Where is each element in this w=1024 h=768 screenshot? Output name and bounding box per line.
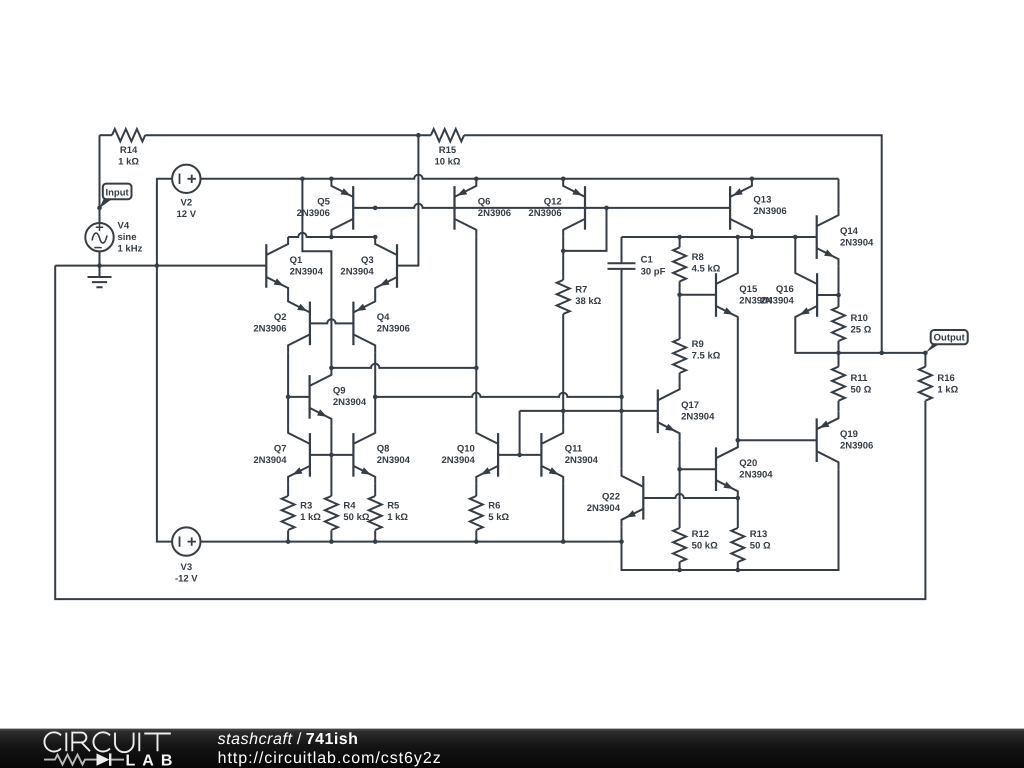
node Q13 emitter: [750, 177, 755, 182]
svg-text:2N3904: 2N3904: [442, 455, 476, 466]
wire bias jog from rail to Q9 collector: [302, 179, 331, 368]
wire Q11 collector up: [562, 411, 564, 426]
svg-text:Q19: Q19: [840, 429, 858, 440]
node C1 bottom: [619, 409, 624, 414]
svg-text:2N3904: 2N3904: [377, 455, 411, 466]
svg-text:25 Ω: 25 Ω: [851, 325, 872, 336]
transistor Q7: [253, 426, 310, 484]
resistor R10: [832, 307, 872, 341]
transistor Q14: [817, 208, 874, 266]
svg-text:4.5 kΩ: 4.5 kΩ: [692, 263, 721, 274]
wire Q14 emitter to R10: [818, 266, 839, 307]
wire R12 bottom: [679, 562, 681, 570]
wire R11 bottom to Q19 emitter: [838, 401, 840, 412]
svg-text:Q13: Q13: [753, 195, 771, 206]
wire +12V rail: [201, 175, 839, 179]
svg-text:Q8: Q8: [377, 444, 390, 455]
node output right riser: [879, 351, 884, 356]
wire R4 top: [330, 455, 332, 496]
transistor Q10: [442, 426, 499, 484]
node Q2 collector/Q9 base: [286, 395, 291, 400]
svg-text:V2: V2: [180, 197, 192, 208]
transistor Q8: [353, 426, 410, 484]
svg-text:sine: sine: [118, 232, 137, 243]
footer bar: [0, 729, 1024, 768]
svg-text:2N3906: 2N3906: [840, 441, 873, 452]
wire R14/R15 tap to Q3 base: [397, 135, 419, 265]
wire second stage top node: [622, 236, 818, 238]
svg-text:LAB: LAB: [126, 752, 180, 768]
svg-text:Q10: Q10: [457, 444, 475, 455]
transistor Q1: [266, 237, 323, 295]
logo resistor-diode glyph and LAB: [44, 755, 97, 765]
node output terminal: [923, 351, 928, 356]
node Q5 collector: [329, 235, 334, 240]
svg-text:-12 V: -12 V: [175, 573, 198, 584]
svg-text:R10: R10: [851, 313, 868, 324]
svg-text:Q9: Q9: [333, 386, 346, 397]
transistor Q5: [297, 179, 354, 237]
svg-text:Q5: Q5: [317, 197, 330, 208]
transistor Q22: [587, 469, 644, 527]
node R12 bottom: [677, 568, 682, 573]
svg-text:1 kΩ: 1 kΩ: [937, 385, 958, 396]
wire R11 top: [838, 353, 840, 367]
svg-text:C1: C1: [641, 255, 654, 266]
svg-text:R14: R14: [120, 145, 138, 156]
svg-text:Q7: Q7: [274, 444, 287, 455]
wire Q9 emitter down: [330, 426, 332, 455]
svg-text:2N3906: 2N3906: [528, 208, 561, 219]
node R14/R15 junction: [416, 133, 421, 138]
svg-text:2N3904: 2N3904: [681, 412, 715, 423]
node Q15 collector: [736, 235, 741, 240]
resistor R14: [112, 129, 145, 168]
svg-text:2N3906: 2N3906: [253, 324, 286, 335]
transistor Q9: [310, 368, 367, 426]
svg-text:R12: R12: [692, 529, 709, 540]
transistor Q19: [817, 411, 874, 469]
svg-text:R15: R15: [439, 145, 457, 156]
wire Q10 emitter to R6: [475, 484, 477, 496]
wire V2 left to V3 left: [157, 179, 172, 542]
wire R13 top: [737, 498, 739, 528]
wire ground net to Q1 base: [55, 265, 266, 267]
node input terminal: [97, 206, 102, 211]
svg-text:stashcraft / 741ish: stashcraft / 741ish: [218, 731, 359, 748]
wire Q9 collector to Q6 collector: [331, 364, 476, 368]
svg-text:R4: R4: [343, 501, 356, 512]
wire R9 bottom to Q17 collector: [679, 373, 681, 382]
node Q3 collector: [373, 235, 378, 240]
svg-text:50 Ω: 50 Ω: [851, 385, 872, 396]
wire V4 bottom: [99, 251, 101, 265]
output flag: [926, 330, 968, 353]
svg-text:Q15: Q15: [739, 284, 758, 295]
svg-text:Q22: Q22: [602, 492, 620, 503]
svg-text:R5: R5: [387, 501, 400, 512]
svg-text:2N3904: 2N3904: [761, 295, 795, 306]
resistor R7: [557, 280, 602, 314]
svg-text:2N3904: 2N3904: [739, 470, 773, 481]
wire Q1/Q3/Q5 collector node: [288, 233, 375, 237]
wire input vertical: [99, 135, 101, 223]
wire R10 bottom: [838, 341, 840, 353]
svg-text:2N3906: 2N3906: [297, 208, 330, 219]
wire mirror tie Q10/Q11 and Q17 base: [520, 411, 658, 455]
transistor Q12: [528, 179, 585, 237]
resistor R5: [369, 496, 409, 530]
voltage source V2: [172, 165, 200, 220]
svg-text:2N3904: 2N3904: [840, 237, 874, 248]
wire C1 bottom to Q22 collector: [621, 269, 623, 469]
wire top-left from R14 corner: [100, 134, 113, 136]
svg-text:Input: Input: [105, 187, 129, 198]
svg-text:2N3904: 2N3904: [290, 266, 324, 277]
node R4 bottom: [329, 539, 334, 544]
node R5 bottom: [373, 539, 378, 544]
svg-text:Q3: Q3: [361, 255, 374, 266]
wire Q12 base-collector tie: [563, 208, 606, 251]
svg-text:1 kΩ: 1 kΩ: [300, 512, 321, 523]
svg-text:30 pF: 30 pF: [641, 266, 666, 277]
node first stage out: [619, 395, 624, 400]
node Q11 emitter rail: [561, 539, 566, 544]
transistor Q16: [761, 266, 818, 324]
svg-text:Q6: Q6: [478, 197, 491, 208]
svg-text:10 kΩ: 10 kΩ: [434, 157, 460, 168]
wire Q6 collector to Q10 collector: [475, 237, 477, 426]
svg-text:2N3906: 2N3906: [478, 208, 511, 219]
node Q17 emitter/Q20 base: [677, 467, 682, 472]
svg-text:R11: R11: [851, 373, 869, 384]
input flag: [99, 184, 131, 209]
svg-text:2N3904: 2N3904: [333, 397, 367, 408]
node Q16 collector: [793, 235, 798, 240]
transistor Q15: [716, 266, 773, 324]
node Q22 emitter rail: [619, 539, 624, 544]
resistor R3: [282, 496, 322, 530]
node Q12 base: [604, 206, 609, 211]
wire R7 bottom: [562, 314, 564, 411]
wire Q16 collector up: [794, 237, 796, 266]
wire Q2-Q4 base: [310, 319, 354, 323]
resistor R11: [832, 367, 872, 401]
node Q20 emitter/R13: [736, 496, 741, 501]
wire Q10/Q11 base bus: [498, 454, 541, 456]
node Q6/Q10 collector tap: [474, 366, 479, 371]
wire R4 bottom: [330, 530, 332, 541]
resistor R8: [673, 247, 721, 281]
wire R15 to right side down to output: [464, 135, 882, 353]
wire R16 top: [924, 353, 926, 367]
wire Q20 collector node to Q19 base: [738, 439, 818, 441]
wire Q16 emitter to output: [795, 324, 925, 353]
svg-text:2N3906: 2N3906: [377, 324, 410, 335]
ground: [88, 266, 112, 288]
wire Q2 collector to Q7 collector: [287, 352, 289, 426]
wire Q7/Q8 base bus: [310, 454, 354, 456]
wire Q4 collector to Q8 collector: [374, 352, 376, 426]
node Q14 emitter/Q16 base: [836, 293, 841, 298]
svg-text:1 kΩ: 1 kΩ: [387, 512, 408, 523]
node Q5 emitter: [329, 177, 334, 182]
node rail bias tap: [300, 177, 305, 182]
resistor R16: [919, 367, 959, 401]
svg-text:Q11: Q11: [565, 444, 583, 455]
wire C1 top: [621, 237, 623, 263]
wire R3 bottom: [287, 530, 289, 541]
svg-text:2N3904: 2N3904: [253, 455, 287, 466]
svg-text:Q1: Q1: [290, 255, 303, 266]
svg-text:1 kHz: 1 kHz: [118, 244, 143, 255]
svg-text:Q12: Q12: [544, 197, 562, 208]
node R10/R11 output: [836, 351, 841, 356]
transistor Q13: [730, 179, 787, 237]
node Q12 emitter: [561, 177, 566, 182]
svg-text:2N3904: 2N3904: [565, 455, 599, 466]
wire Q22 emitter down: [621, 527, 623, 542]
svg-text:2N3906: 2N3906: [753, 206, 786, 217]
svg-text:Q17: Q17: [681, 400, 699, 411]
resistor R13: [731, 528, 771, 562]
wire Q9 base: [288, 396, 309, 398]
wire R8 top: [679, 237, 681, 247]
wire Q15 collector up: [737, 237, 739, 266]
voltage source V3: [172, 527, 200, 584]
svg-text:50 Ω: 50 Ω: [750, 541, 771, 552]
resistor R9: [673, 339, 721, 373]
wire R8 bottom / Q15 base: [680, 281, 716, 339]
svg-text:50 kΩ: 50 kΩ: [343, 512, 369, 523]
transistor Q4: [353, 294, 410, 352]
svg-text:R16: R16: [937, 373, 954, 384]
wire R5 bottom: [374, 530, 376, 541]
svg-text:Q4: Q4: [377, 312, 390, 323]
resistor R12: [673, 528, 718, 562]
svg-text:7.5 kΩ: 7.5 kΩ: [692, 351, 721, 362]
svg-text:R6: R6: [488, 501, 500, 512]
transistor Q20: [716, 440, 773, 498]
wire R14 to R15: [145, 134, 431, 136]
capacitor C1: [608, 255, 666, 278]
resistor R15: [431, 129, 464, 168]
svg-text:V3: V3: [180, 562, 192, 573]
node Q4/Q8 collector tap: [373, 395, 378, 400]
wire Q11 emitter down: [562, 484, 564, 542]
resistor R4: [325, 496, 370, 530]
svg-text:Q2: Q2: [274, 312, 287, 323]
node Q3 collector/base bus: [373, 206, 378, 211]
transistor Q17: [658, 382, 715, 440]
wire -12V rail: [201, 469, 839, 570]
svg-text:Q16: Q16: [776, 284, 794, 295]
transistor Q6: [455, 179, 512, 237]
node V2/V3 ground tie: [155, 263, 160, 268]
node R6 bottom: [474, 539, 479, 544]
node Q6 emitter: [474, 177, 479, 182]
svg-text:2N3904: 2N3904: [587, 503, 621, 514]
node R3 bottom: [286, 539, 291, 544]
svg-text:38 kΩ: 38 kΩ: [575, 296, 601, 307]
svg-text:5 kΩ: 5 kΩ: [488, 512, 509, 523]
resistor R6: [470, 496, 510, 530]
wire rail corner to Q14 collector: [838, 179, 840, 208]
node R7 bottom/Q11 collector: [561, 409, 566, 414]
svg-text:Q14: Q14: [840, 226, 859, 237]
wire first stage output: [375, 393, 621, 397]
wire Q7 emitter to R3: [287, 484, 289, 496]
node Q20 collector/Q19 base: [736, 438, 741, 443]
svg-text:R9: R9: [692, 339, 704, 350]
svg-text:1 kΩ: 1 kΩ: [118, 157, 139, 168]
transistor Q3: [340, 237, 397, 295]
node R8 top: [677, 235, 682, 240]
wire Q15 emitter to Q20 collector: [737, 324, 739, 440]
node R13 bottom: [736, 568, 741, 573]
CircuitLab logo wordmark CIRCUIT: [44, 732, 170, 752]
svg-text:R3: R3: [300, 501, 312, 512]
transistor Q11: [541, 426, 598, 484]
svg-text:Output: Output: [934, 333, 966, 344]
wire Q12 collector down: [562, 237, 564, 280]
wire Q22 base to Q20 emitter: [643, 494, 738, 498]
wire Q8 emitter to R5: [374, 484, 376, 496]
node R8/R9/Q15 base: [677, 293, 682, 298]
wire Q17 emitter to Q20 base: [680, 468, 716, 470]
voltage source V4 (sine): [85, 221, 142, 255]
wire pnp base bus Q5-Q13: [353, 204, 730, 208]
node V4 ground: [97, 263, 102, 268]
svg-text:http://circuitlab.com/cst6y2z: http://circuitlab.com/cst6y2z: [218, 750, 442, 767]
svg-text:R8: R8: [692, 252, 704, 263]
svg-text:12 V: 12 V: [177, 209, 197, 220]
svg-text:R13: R13: [750, 529, 767, 540]
node Q10/Q11 base: [517, 453, 522, 458]
svg-text:R7: R7: [575, 285, 587, 296]
svg-text:Q20: Q20: [739, 458, 757, 469]
transistor Q2: [253, 294, 310, 352]
svg-text:50 kΩ: 50 kΩ: [692, 541, 718, 552]
svg-text:2N3904: 2N3904: [340, 266, 374, 277]
svg-text:V4: V4: [118, 221, 130, 232]
wire R13 bottom: [737, 562, 739, 570]
node Q9 collector: [329, 366, 334, 371]
wire left/bottom ground rail: [55, 266, 925, 599]
node Q12 collector/R7: [561, 249, 566, 254]
node Q7/Q8 base: [329, 453, 334, 458]
node Q13 collector: [750, 235, 755, 240]
wire Q17 emitter down to R12: [679, 440, 681, 528]
wire R6 bottom: [475, 530, 477, 541]
